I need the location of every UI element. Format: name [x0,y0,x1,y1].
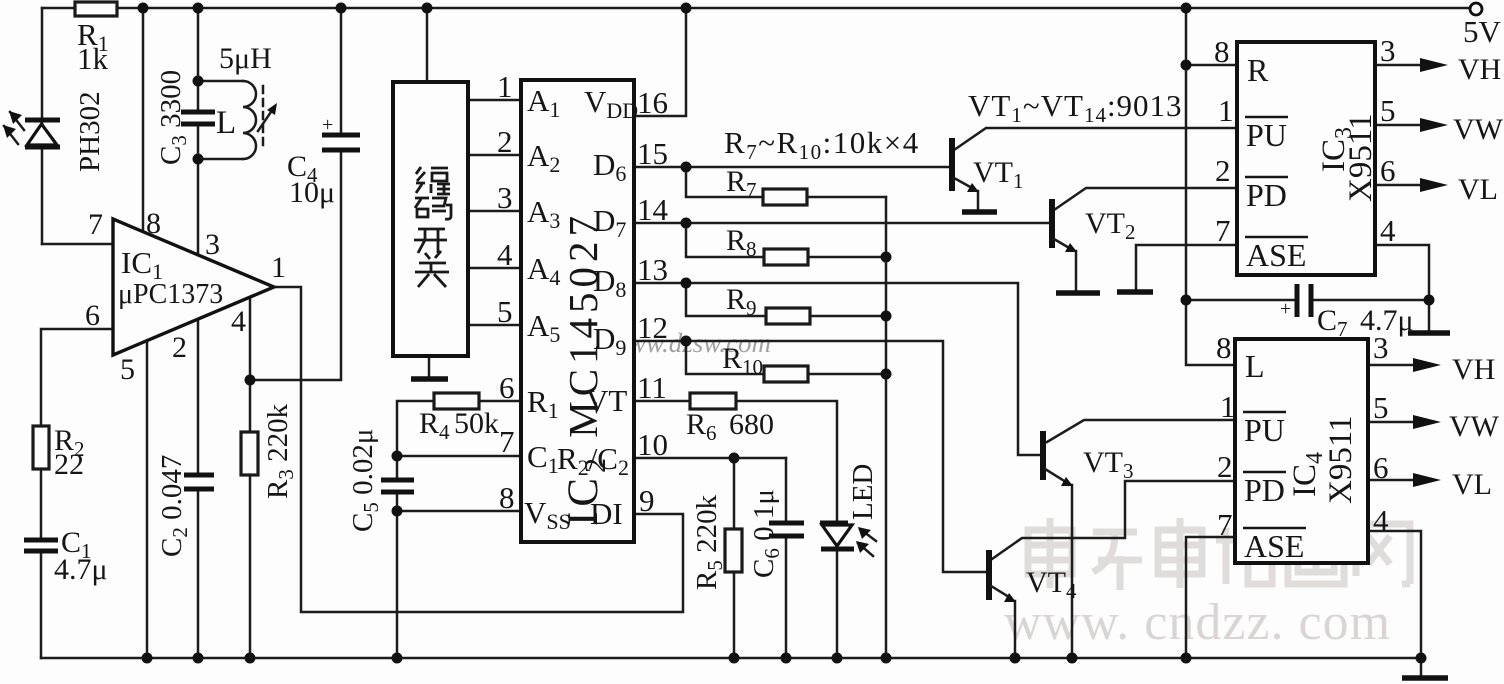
wire VT4 collector up to IC4 pin2 PD [992,481,1235,559]
wire D6 line to VT1 base [634,166,949,169]
junction dot R5/C6 node [729,453,740,464]
svg-text:5: 5 [120,353,135,386]
svg-text:16: 16 [637,85,668,120]
wire IC4 pin5 to VW arrow [1368,421,1417,424]
wire D7 drop to R8 [686,223,764,257]
wire C6 top lead [785,458,788,521]
resistor R10 [722,342,808,382]
svg-text:1: 1 [1220,389,1236,424]
wire D9 drop to R10 [686,341,764,374]
junction dot bus x686 [681,3,692,14]
svg-text:DI: DI [590,496,623,531]
svg-text:C5 0.02μ: C5 0.02μ [347,429,383,532]
junction dot node pin4/R3/C4 [245,375,256,386]
junction dot D6 [681,162,692,173]
wire pin6 stub of IC1 going left and down to R2 [41,329,113,426]
svg-text:1: 1 [1218,93,1234,128]
wire IC2 pin8 VSS stub [397,510,521,513]
junction dot ladder R8 [881,252,892,263]
wire VT1 emitter ground stem [977,191,980,209]
wire IC4 pin7 ASE down to bottom bus [1186,537,1235,658]
svg-text:8: 8 [1214,34,1230,69]
wire VT3 emitter to bottom bus [1071,485,1074,658]
junction dot bottom bus x1015 [1010,653,1021,664]
svg-text:4: 4 [1380,213,1396,248]
transistor VT4 [989,550,1077,603]
wire top 5V bus [42,7,1471,10]
svg-text:www. cndzz. com: www. cndzz. com [1004,594,1391,651]
junction dot bottom bus x1072 [1067,653,1078,664]
wire encoder to A5 [468,324,521,327]
junction dot ladder R10 [881,369,892,380]
resistor R6 [686,393,774,445]
svg-text:50k: 50k [454,407,499,440]
op-amp IC1 uPC1373 [85,207,286,386]
junction dot bottom bus x147 [142,653,153,664]
svg-text:ASE: ASE [1246,237,1306,273]
svg-text:7: 7 [499,424,515,459]
capacitor C1 [24,526,108,586]
wire R4 to IC2 pin6 [479,400,521,403]
IC2 MC145027 box [497,69,669,542]
junction dot C5 top [392,451,403,462]
svg-text:C2 0.047: C2 0.047 [156,455,192,557]
resistor R2 [33,424,85,481]
svg-text:1k: 1k [77,41,109,76]
wire encoder to A1 [468,99,521,102]
svg-text:4: 4 [497,237,513,272]
svg-text:VW: VW [1453,113,1504,146]
svg-text:PD: PD [1244,472,1285,508]
svg-text:8: 8 [1216,330,1232,365]
svg-text:13: 13 [637,252,668,287]
5V terminal [1463,3,1502,49]
svg-text:3: 3 [497,180,513,215]
wire bus through C4 down and left to node [250,8,341,380]
junction dot bottom bus x1186 [1181,653,1192,664]
svg-text:VW: VW [1449,410,1500,443]
junction dot bottom bus x198 [193,653,204,664]
svg-text:7: 7 [1217,507,1233,542]
junction dot bus x427 [422,3,433,14]
svg-text:L: L [1245,348,1265,384]
svg-text:6: 6 [1373,450,1389,485]
wire R5 bottom to bus [733,572,736,658]
svg-text:ASE: ASE [1244,528,1304,564]
svg-text:+: + [322,114,333,136]
wire IC3 pin3 to VH arrow [1375,64,1424,67]
ground IC3 ASE [1117,289,1153,295]
IC3 X9511 box [1214,33,1396,275]
junction dot L top [193,76,204,87]
arrow VW IC4 [1413,410,1500,443]
svg-text:X9511: X9511 [1343,113,1379,202]
resistor R4 [419,393,499,444]
svg-text:C6 0.1μ: C6 0.1μ [748,489,784,578]
junction dot bus x198 [193,3,204,14]
wire IC2 pin7 C1 stub [397,455,521,458]
wire R8 right to ladder [808,256,886,259]
svg-text:11: 11 [637,370,667,405]
svg-text:5: 5 [1373,390,1389,425]
svg-text:R: R [1247,52,1269,88]
svg-text:R3 220k: R3 220k [262,403,298,499]
wire IC1 pin4 down to node [249,297,252,380]
svg-text:VT: VT [586,383,627,418]
svg-text:4.7μ: 4.7μ [54,553,108,586]
IC4 X9511 box [1216,330,1389,564]
svg-text:5V: 5V [1463,14,1502,49]
wire R6 right over and down to LED [736,401,837,523]
wire IC3 pin6 to VL arrow [1375,184,1424,187]
resistor R5 [691,494,742,590]
junction dot C5 bottom [392,506,403,517]
svg-text:6: 6 [1380,153,1396,188]
LED [820,464,879,556]
svg-text:PU: PU [1244,412,1285,448]
wire D6 drop to R7 [686,167,763,197]
junction dot D7 [681,218,692,229]
capacitor C7 [1280,284,1414,341]
capacitor C3 [155,70,215,165]
wire pin7 stub of IC1 [42,243,113,246]
junction dot ladder R9 [881,311,892,322]
junction dot bottom bus x734 [729,653,740,664]
wire encoder to A2 [468,154,521,157]
svg-text:6: 6 [85,299,100,332]
arrow VL IC3 [1420,173,1498,206]
svg-text:2: 2 [1215,153,1231,188]
wire IC2 pin10 to R5 and C6 [634,457,786,460]
svg-text:C3 3300: C3 3300 [155,70,191,165]
photodiode PH302 [3,91,106,172]
svg-text:1: 1 [271,251,286,284]
svg-text:10μ: 10μ [289,176,335,209]
wire encoder to A3 [468,210,521,213]
resistor R9 [726,283,810,324]
svg-text:PD: PD [1246,177,1287,213]
svg-text:3: 3 [205,228,220,261]
junction dot L bottom [193,154,204,165]
wire bus to IC1 pin8 [142,8,145,232]
svg-text:8: 8 [146,207,161,240]
wire encoder to A4 [468,267,521,270]
wire R9 right to ladder [808,315,886,318]
wire R4 left lead down through C5 to bottom bus [397,401,434,658]
wire R5 top lead [733,458,736,529]
wire IC4 pin3 to VH arrow [1368,364,1417,367]
svg-text:5μH: 5μH [219,42,272,75]
wire bus through C3 to IC1 pin3 [197,8,200,255]
wire IC3 pin8 stub [1186,64,1237,67]
svg-text:L: L [216,105,236,141]
capacitor C5 [347,429,414,532]
wire bus down to encoder switch box [426,8,429,82]
wire IC1 pin1 output long run down to DI [274,287,683,612]
wire IC2 pin11 VT to R6 [634,400,690,403]
wire D9 line over and down to VT4 base [634,341,986,572]
transistor VT3 [1043,431,1134,486]
wire VT2 collector to IC3 pin2 PD [1054,188,1237,210]
resistor R7 [726,165,807,205]
junction dot bus x1186 [1181,3,1192,14]
wire IC1 pin5 to bottom bus [146,341,149,658]
arrow VH IC4 [1413,353,1495,386]
junction dot bottom bus x397 [392,653,403,664]
resistor R8 [726,224,808,265]
junction dot C7 left [1181,295,1192,306]
svg-text:9: 9 [639,483,655,518]
arrow VH IC3 [1420,53,1501,86]
junction dot bottom bus x250 [245,653,256,664]
svg-text:VH: VH [1458,53,1501,86]
wire C1 to bottom bus [40,551,43,658]
svg-text:μPC1373: μPC1373 [118,279,223,310]
wire bottom ground bus [41,657,1421,660]
wire IC3 pin7 ASE to ground [1136,245,1237,289]
wire IC2 pin16 VDD up to bus [634,8,686,116]
transistor VT1 [952,138,1024,212]
svg-text:5: 5 [1380,93,1396,128]
ground C7 right [1408,330,1450,336]
svg-text:VL: VL [1452,468,1492,501]
junction dot C7 right [1424,295,1435,306]
svg-text:14: 14 [637,192,669,227]
junction dot IC3 pin8 [1181,60,1192,71]
wire VT4 emitter to bottom bus [1014,601,1017,658]
wire VT3 collector to IC4 pin1 PU [1047,420,1235,442]
svg-text:5: 5 [497,294,513,329]
arrow VW IC3 [1420,113,1504,146]
ground IC4 pin4 below bus [1402,675,1448,681]
junction dot bottom bus x886 [881,653,892,664]
svg-text:VL: VL [1458,173,1498,206]
wire encoder switch ground stem [428,356,431,377]
arrow VL IC4 [1413,468,1492,501]
wire inductor top tap [198,80,243,83]
svg-text:1: 1 [497,69,513,104]
wire C7 row [1186,299,1429,302]
svg-text:2: 2 [497,124,513,159]
svg-text:R5 220k: R5 220k [691,494,727,590]
wire R2 to C1 [40,469,43,540]
svg-text:4: 4 [1373,503,1389,538]
wire IC1 pin2 through C2 to bottom bus [197,319,200,658]
svg-text:VH: VH [1452,353,1495,386]
wire VT1 collector to IC3 pin1 PU [954,128,1237,150]
svg-text:10: 10 [637,427,668,462]
svg-text:680: 680 [729,408,774,441]
svg-text:X9511: X9511 [1323,415,1359,504]
wire IC3 pin4 down to C7 row and ground [1375,245,1429,330]
wire R7 right to ladder [807,196,886,199]
wire R10 right to ladder [808,373,886,376]
svg-text:LED: LED [847,464,879,520]
svg-text:3: 3 [1373,330,1389,365]
svg-text:6: 6 [499,370,515,405]
wire C6 bottom to bus [785,537,788,658]
junction dot D9 [681,336,692,347]
wire D8 drop to R9 [686,283,766,316]
wire D8 line over and down to VT3 base [634,283,1040,455]
svg-text:PH302: PH302 [74,91,106,172]
capacitor C2 [156,455,214,557]
resistor R3 [241,403,298,499]
transistor VT2 [1052,199,1136,293]
wire VT2 emitter ground stem [1075,251,1078,290]
wire ladder vertical to bottom bus [885,197,888,658]
svg-text:12: 12 [637,310,668,345]
wire node through R3 to bottom bus [249,380,252,658]
wire bus down through IC3 pin8 and C7 row to IC4 pin8 [1186,8,1235,365]
wire left drop from bus through photodiode to pin7 level [41,8,44,244]
capacitor C6 [748,489,804,578]
junction dot D8 [681,278,692,289]
svg-text:VT1~VT14:9013: VT1~VT14:9013 [968,88,1183,127]
junction dot bus x143 [138,3,149,14]
svg-text:+: + [1280,298,1291,320]
svg-text:2: 2 [1217,449,1233,484]
svg-text:4: 4 [231,305,246,338]
junction dot bus x341 [336,3,347,14]
wire IC4 pin4 down to bottom bus and ground [1368,531,1421,676]
wire LED cathode to bottom bus [836,550,839,658]
junction dot bottom bus x1421 [1416,653,1427,664]
svg-text:PU: PU [1246,117,1287,153]
svg-text:8: 8 [499,480,515,515]
resistor R1 [75,2,117,76]
watermark big chinese 电子电路图网 (crude glyph strokes) [1028,518,1410,590]
wire D7 line to VT2 base [634,222,1048,225]
wire IC4 pin6 to VL arrow [1368,479,1417,482]
svg-text:3: 3 [1380,33,1396,68]
wire inductor bottom tap [198,158,243,161]
wire IC3 pin5 to VW arrow [1375,124,1424,127]
junction dot bottom bus x837 [832,653,843,664]
capacitor C4 [287,114,360,209]
junction dot bottom bus x786 [781,653,792,664]
svg-text:22: 22 [54,448,84,481]
svg-text:7: 7 [1215,213,1231,248]
encoder switch box 编码开关 [393,82,468,379]
svg-text:7: 7 [88,208,103,241]
inductor L 5uH [216,42,277,159]
svg-text:2: 2 [172,331,187,364]
svg-text:15: 15 [637,136,668,171]
